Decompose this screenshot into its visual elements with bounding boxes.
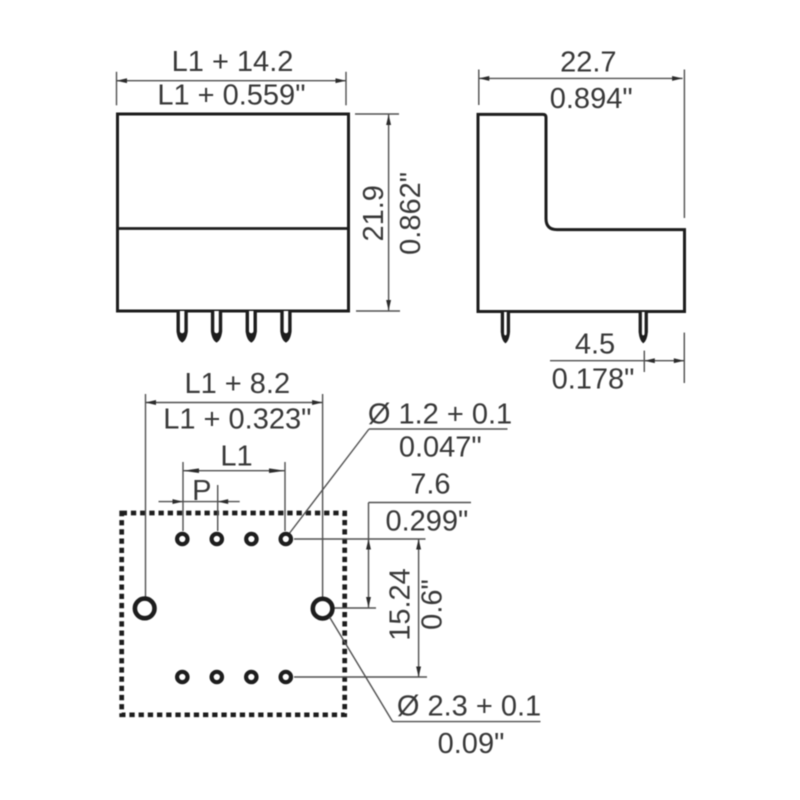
bottom hole row (4 holes) bbox=[177, 672, 187, 682]
svg-text:P: P bbox=[192, 475, 211, 507]
svg-text:0.6": 0.6" bbox=[416, 579, 448, 630]
svg-text:15.24: 15.24 bbox=[385, 568, 417, 641]
PCB outline (dashed) bbox=[122, 513, 345, 715]
dimension 21.9 / 0.862" (height, right of front view) bbox=[355, 114, 400, 311]
pin 2 (front view) bbox=[211, 311, 222, 343]
pin right (side view) bbox=[639, 312, 648, 343]
pin 3 (front view) bbox=[246, 311, 257, 343]
svg-text:22.7: 22.7 bbox=[560, 47, 616, 79]
dimension 4.5 (pin to edge, bottom) bbox=[550, 333, 684, 383]
svg-text:Ø 1.2 + 0.1: Ø 1.2 + 0.1 bbox=[368, 399, 512, 431]
dimension L1 (hole row span) bbox=[183, 462, 285, 531]
svg-text:21.9: 21.9 bbox=[358, 185, 390, 241]
svg-text:0.894": 0.894" bbox=[550, 83, 633, 115]
extension from bottom hole row bbox=[294, 676, 427, 678]
svg-text:L1: L1 bbox=[220, 441, 252, 473]
dimension L1 + 8.2 bbox=[146, 400, 323, 405]
svg-text:L1 + 0.559": L1 + 0.559" bbox=[157, 80, 305, 112]
svg-text:0.178": 0.178" bbox=[552, 364, 635, 396]
svg-text:0.047": 0.047" bbox=[399, 432, 482, 464]
pin 1 (front view) bbox=[177, 311, 188, 343]
connector body outline bbox=[118, 114, 349, 311]
pin 4 (front view) bbox=[280, 311, 291, 343]
svg-text:L1 + 0.323": L1 + 0.323" bbox=[163, 404, 311, 436]
dimension 15.24 (row to row) bbox=[416, 539, 421, 677]
top hole row (4 holes) bbox=[177, 534, 187, 544]
leader Ø1.2 from top-right hole bbox=[289, 429, 370, 535]
svg-text:Ø 2.3 + 0.1: Ø 2.3 + 0.1 bbox=[397, 691, 541, 723]
dimension 7.6 (row to big hole) bbox=[366, 503, 471, 608]
pin left (side view) bbox=[501, 312, 510, 343]
svg-text:0.862": 0.862" bbox=[395, 172, 427, 255]
extension line left (L1+8.2) bbox=[145, 394, 147, 599]
dimension 22.7 (width, top) bbox=[479, 70, 685, 219]
extension from big hole bbox=[334, 607, 376, 609]
big mounting hole left bbox=[135, 599, 155, 619]
side profile outline bbox=[478, 114, 685, 311]
extension line right (L1+8.2) bbox=[322, 394, 324, 597]
svg-text:0.09": 0.09" bbox=[438, 728, 505, 760]
big mounting hole right bbox=[313, 599, 333, 619]
dimension P (pitch) bbox=[159, 485, 240, 531]
extension from top hole row bbox=[294, 538, 426, 540]
leader Ø2.3 from big hole right bbox=[330, 617, 393, 722]
body parting line bbox=[118, 227, 349, 230]
svg-text:4.5: 4.5 bbox=[575, 329, 615, 361]
svg-text:L1 + 14.2: L1 + 14.2 bbox=[172, 46, 294, 78]
dimension L1 + 14.2 (width, top) bbox=[117, 72, 347, 106]
svg-text:7.6: 7.6 bbox=[410, 469, 450, 501]
svg-text:0.299": 0.299" bbox=[385, 505, 468, 537]
svg-text:L1 + 8.2: L1 + 8.2 bbox=[184, 368, 290, 400]
